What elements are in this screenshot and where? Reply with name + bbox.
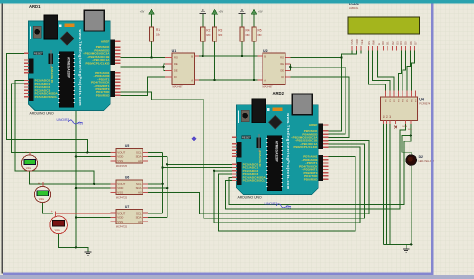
- wire U4 SCL branch to D2 anode: [402, 136, 411, 157]
- svg-text:MCP4725: MCP4725: [116, 165, 128, 168]
- svg-text:PCF8574: PCF8574: [419, 102, 431, 106]
- svg-text:Volts: Volts: [55, 229, 61, 232]
- svg-text:VSS: VSS: [350, 39, 354, 45]
- svg-text:680: 680: [258, 34, 263, 37]
- svg-text:U7: U7: [125, 205, 129, 209]
- svg-text:RS: RS: [367, 41, 371, 45]
- wire LCD E to U4 P2: [377, 51, 394, 91]
- wire R3 stem: [214, 41, 216, 80]
- svg-text:DI: DI: [174, 75, 177, 79]
- wire U4 SCL to ARD2 PC4: [229, 124, 411, 204]
- wire SDA bus to ARD2 PC0: [167, 163, 232, 165]
- svg-text:ARD2: ARD2: [273, 91, 285, 96]
- node U1 RE-DE tie: [163, 66, 165, 68]
- resistor R4: [240, 27, 244, 41]
- wire meter VM3 to U7 VOUT red net: [55, 212, 110, 214]
- ground above R2: [199, 10, 206, 27]
- svg-text:+5V: +5V: [258, 11, 263, 14]
- wire U6 SCL stub to bus: [148, 183, 162, 185]
- power +5V above R3: [212, 9, 218, 27]
- svg-text:DE: DE: [280, 69, 284, 73]
- node U6 SCL on bus: [161, 183, 163, 185]
- wire LCD D6 to U4 P5: [407, 51, 410, 91]
- origin marker diamond: [192, 136, 197, 141]
- wire meter VM2 to U6 VDD: [76, 156, 111, 158]
- wire U7 VDD to rail: [76, 217, 111, 219]
- dac U6 MCP4725: [111, 180, 149, 195]
- wire U6 A0 loop to ARD2 PB2: [148, 141, 369, 214]
- left window edge line: [2, 4, 3, 274]
- wire D2 cathode to ground: [406, 165, 411, 247]
- svg-text:+5V: +5V: [140, 11, 145, 14]
- svg-text:D5: D5: [403, 41, 407, 45]
- svg-text:Volts: Volts: [39, 198, 45, 201]
- svg-text:D0: D0: [381, 41, 385, 45]
- resistor R5: [252, 27, 256, 41]
- svg-text:VDD: VDD: [355, 39, 359, 45]
- svg-text:MCP4725: MCP4725: [116, 226, 128, 229]
- wire ARD2 PC3 loop to ARD2 PD7: [219, 157, 356, 232]
- svg-text:RE: RE: [174, 62, 178, 66]
- node U6 SDA on bus: [166, 187, 168, 189]
- svg-text:R3: R3: [218, 29, 222, 33]
- svg-text:D7: D7: [413, 41, 417, 45]
- wire U7 SDA stub to bus: [148, 217, 167, 219]
- svg-text:B: B: [191, 55, 193, 59]
- wire meter VM2 minus to VM3 plus: [43, 203, 54, 214]
- arduino ARD1: [24, 10, 121, 125]
- wire U6 SDA stub to bus: [148, 187, 167, 189]
- svg-text:+5V: +5V: [219, 11, 224, 14]
- svg-text:+: +: [25, 150, 27, 154]
- svg-text:E: E: [377, 43, 381, 45]
- wire U5 SCL stub to bus: [148, 151, 162, 153]
- wire meter VM3 minus to ground: [59, 234, 88, 250]
- lcd LCD1 LM016L: [348, 2, 420, 50]
- svg-text:U6: U6: [125, 176, 129, 180]
- wire U2 DI to ARD2 PB3: [285, 77, 349, 137]
- resistor R1: [149, 27, 153, 41]
- wire R4 stem: [241, 41, 243, 56]
- svg-text:DE: DE: [174, 69, 178, 73]
- svg-text:D4: D4: [399, 41, 403, 45]
- svg-text:SDA: SDA: [402, 125, 407, 128]
- wire ARD1 PC1 to meter rail: [11, 84, 30, 153]
- svg-text:B: B: [264, 55, 266, 59]
- dac U5 MCP4725: [111, 149, 149, 164]
- svg-text:D2: D2: [419, 155, 423, 159]
- voltmeter VM1: [21, 150, 37, 171]
- svg-text:MCP4725: MCP4725: [116, 196, 128, 199]
- bottom status strip: [0, 275, 474, 279]
- svg-text:R2: R2: [206, 29, 210, 33]
- svg-text:680: 680: [246, 34, 251, 37]
- node rail / ground: [75, 246, 77, 248]
- wire R5 stem: [253, 41, 255, 80]
- svg-text:RW: RW: [371, 40, 375, 45]
- wire I2C SDA bus vertical: [166, 157, 168, 218]
- svg-text:U4: U4: [419, 97, 424, 101]
- node ARD2 PC2 corner: [213, 170, 215, 172]
- svg-text:U1: U1: [172, 49, 177, 53]
- node VM1 line / U5 VOUT: [86, 151, 88, 153]
- node rail / U5 VDD: [75, 155, 77, 157]
- svg-text:D2: D2: [391, 41, 395, 45]
- ground above R4: [239, 10, 246, 27]
- wire U7 SCL stub to bus: [148, 212, 162, 214]
- svg-text:D3: D3: [395, 41, 399, 45]
- wire U5 SDA stub to bus: [148, 156, 167, 158]
- svg-text:D1: D1: [386, 41, 390, 45]
- node VM2 line / U6 VOUT: [93, 183, 95, 185]
- wire U4 A0 A1 A2 to ground rail: [383, 124, 411, 244]
- wire ARD1 PD1 loop to ARD2 PB1: [121, 92, 365, 218]
- wire LCD VEE stub: [360, 51, 362, 54]
- wire U2 RO to ARD2 PB5: [290, 58, 341, 131]
- wire meter VM1 minus to VM2 plus: [30, 171, 43, 184]
- node R4 on bus A: [241, 55, 243, 57]
- window top teal bar: [0, 0, 474, 4]
- svg-text:ARD1: ARD1: [29, 4, 41, 9]
- node R1 bottom / TXD line: [150, 56, 152, 58]
- wire ARD1 RXD to U1 DI: [121, 77, 166, 95]
- wire ARD1 RESET to U5 VOUT: [6, 53, 87, 152]
- nc cross on INT pin: [394, 126, 397, 129]
- svg-text:MAX487: MAX487: [173, 84, 184, 88]
- svg-text:U2: U2: [263, 49, 268, 53]
- svg-text:R1: R1: [156, 28, 160, 32]
- transceiver U1 MAX487: [165, 49, 199, 88]
- led D2: [406, 155, 435, 166]
- ground below D2: [403, 245, 410, 252]
- power +5V above R5: [251, 9, 257, 27]
- wire ARD1 PC0 to U6 VOUT: [15, 81, 94, 184]
- transceiver U2 MAX487: [257, 49, 290, 88]
- svg-text:+: +: [51, 210, 53, 214]
- wire ARD2 PC2 loop to ARD2 PB0: [214, 147, 360, 223]
- dac U7 MCP4725: [111, 209, 149, 224]
- sheet bottom border: [3, 273, 433, 276]
- wire RS485 bus line A U1 to U2: [194, 55, 262, 57]
- power +5V above R1: [149, 9, 155, 27]
- wire 5V rail vertical: [75, 110, 77, 247]
- wire SCL bus to ARD2 PC1: [163, 167, 232, 169]
- svg-text:U5: U5: [125, 144, 129, 148]
- svg-text:D6: D6: [409, 41, 413, 45]
- wire ARD1 to U1 RE/DE tie: [121, 64, 166, 71]
- wire R1 stem: [151, 41, 153, 57]
- svg-text:A: A: [264, 79, 266, 83]
- svg-text:+: +: [38, 182, 40, 186]
- node SCL bus / ARD2 PC1: [161, 166, 163, 168]
- wire RS485 bus line B U1 to U2: [194, 79, 262, 81]
- node R2 on bus A: [202, 55, 204, 57]
- wire LCD D5 to U4 P4: [403, 51, 406, 91]
- svg-text:A: A: [191, 79, 193, 83]
- svg-text:R4: R4: [246, 29, 250, 33]
- svg-text:LM016L: LM016L: [349, 6, 359, 10]
- voltmeter VM2: [34, 182, 50, 203]
- sheet right border: [431, 4, 433, 275]
- wire ARD1 TXD to U1 RO with R1 tap: [121, 57, 166, 59]
- node U2 RE-DE tie: [289, 66, 291, 68]
- wire LCD RW to U4 P1: [373, 51, 390, 91]
- svg-text:RE: RE: [280, 62, 284, 66]
- svg-text:680: 680: [218, 34, 223, 37]
- node U4 SCL / D2 branch: [410, 134, 412, 136]
- node D2 cathode / U4 ground rail: [410, 243, 412, 245]
- wire LCD RS to U4 P0: [368, 51, 385, 91]
- voltmeter VM3: [50, 210, 68, 234]
- wire LCD D4 to U4 P3: [398, 51, 401, 91]
- wire R2 stem: [202, 41, 204, 56]
- resistor R3: [212, 27, 216, 41]
- resistor R2: [201, 27, 205, 41]
- io expander U4 PCF8574: [381, 90, 431, 131]
- wire LCD D7 to U4 P6: [411, 51, 414, 91]
- wire meter VM1 to U5 VDD: [30, 151, 111, 153]
- node rail / U6 VDD: [75, 187, 77, 189]
- node SDA bus / ARD2 PC0: [166, 163, 168, 165]
- wire U4 SDA to ARD2 PC5: [226, 124, 406, 209]
- svg-text:DI: DI: [281, 75, 284, 79]
- svg-text:MAX487: MAX487: [263, 84, 274, 88]
- node rail / U7 VDD: [75, 216, 77, 218]
- svg-text:VEE: VEE: [360, 39, 364, 45]
- svg-text:R5: R5: [258, 29, 262, 33]
- node R5 on bus B: [253, 79, 255, 81]
- wire LCD VSS stub: [351, 51, 353, 54]
- svg-text:RO: RO: [280, 56, 284, 60]
- svg-text:Volts: Volts: [26, 167, 32, 170]
- wire U2 RE/DE tie to ARD2 PB4: [285, 64, 345, 134]
- wire I2C SCL bus vertical: [162, 152, 164, 213]
- node LCD VDD / 5V: [340, 56, 342, 58]
- ground below meters: [85, 248, 92, 255]
- wire LCD VDD to 5V net: [342, 51, 357, 58]
- node R3 on bus B: [213, 79, 215, 81]
- svg-text:680: 680: [206, 34, 211, 37]
- arduino ARD2: [232, 94, 329, 209]
- svg-text:RO: RO: [174, 56, 178, 60]
